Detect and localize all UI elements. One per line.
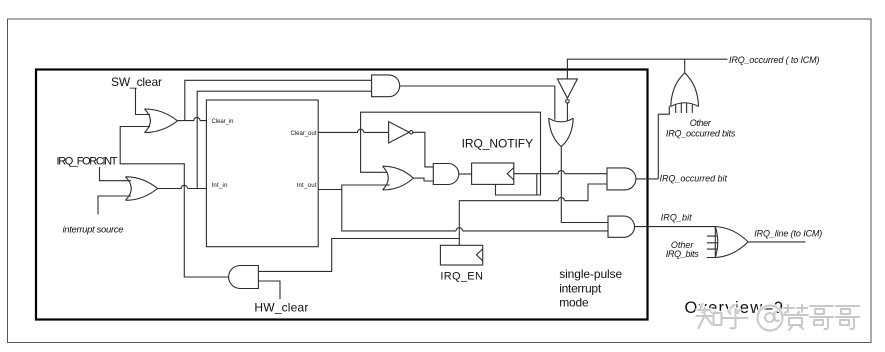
svg-text:Int_out: Int_out: [297, 183, 317, 189]
wire IRQ_line output: [748, 241, 805, 243]
watermark gray text 知乎@赞哥哥: [697, 304, 860, 331]
wire OR2 output to Int_in with hop over HW net: [158, 185, 207, 188]
synchronizer box: [206, 100, 318, 247]
wire top ICM rail: [567, 59, 727, 79]
wire IRQ_EN net (FF up, right to AND1 input 2, hop over downOR net): [459, 184, 607, 245]
svg-text:IRQ_occurred bits: IRQ_occurred bits: [666, 129, 736, 139]
wire IRQ_EN branch to HW AND input 1: [258, 239, 459, 272]
svg-text:Clear_out: Clear_out: [291, 131, 317, 137]
svg-text:Int_in: Int_in: [212, 183, 228, 189]
svg-text:interrupt source: interrupt source: [63, 225, 124, 236]
and-gate U_hw (mirrored, output left): [229, 266, 259, 289]
svg-text:IRQ_NOTIFY: IRQ_NOTIFY: [462, 137, 533, 151]
wire Int_out to notify OR input 2 and AND2 input 2 (hop over IRQ_EN net): [318, 185, 608, 231]
svg-text:IRQ_bit: IRQ_bit: [661, 212, 692, 222]
svg-text:SW_clear: SW_clear: [111, 75, 162, 89]
wire FF output to AND1 input 1 with hop over downOR net: [514, 170, 607, 173]
or-gate OR2 (interrupt combine): [126, 177, 158, 201]
and-gate U_and2 (IRQ_bit): [608, 216, 635, 237]
wire interrupt source to OR2 input 2: [98, 196, 131, 214]
flip-flop IRQ_EN: [440, 245, 482, 265]
or-gate OR1 (clear combine): [145, 109, 178, 133]
wire down OR output to AND2 input 1: [561, 147, 608, 223]
wire OR1 output to Clear_in with hop over HW net: [178, 117, 207, 120]
svg-text:IRQ_occurred bit: IRQ_occurred bit: [660, 174, 728, 184]
flip-flop IRQ_NOTIFY FF: [472, 163, 514, 184]
wire up OR output to ICM rail: [684, 59, 686, 73]
svg-text:HW_clear: HW_clear: [254, 301, 308, 315]
wire feedback riser to FF output wire: [536, 174, 538, 195]
bubble of down inverter: [566, 100, 570, 104]
wire down inverter to down OR input 2: [566, 103, 568, 120]
wire notify AND output to FF: [459, 173, 472, 175]
svg-text:IRQ_occurred ( to ICM): IRQ_occurred ( to ICM): [729, 55, 820, 65]
input stubs of line OR: [707, 236, 718, 257]
svg-text:IRQ_line (to ICM): IRQ_line (to ICM): [754, 228, 822, 238]
clock chevron of notify FF: [507, 168, 514, 180]
wire top AND output to down OR input 1: [400, 86, 555, 120]
or-gate U_or_up (IRQ_occurred combine): [671, 73, 699, 107]
wire AND1 output across module edge: [636, 178, 658, 180]
or-gate U_or_down (clear source select): [549, 118, 574, 146]
svg-text:interrupt: interrupt: [559, 281, 602, 295]
svg-text:IRQ_bits: IRQ_bits: [666, 249, 700, 259]
svg-text:IRQ_FORCINT: IRQ_FORCINT: [57, 156, 118, 168]
svg-text:IRQ_EN: IRQ_EN: [440, 271, 483, 283]
inverter U_notify_inv: [389, 122, 410, 143]
wire notify inverter output loop to notify AND input 1: [413, 132, 433, 167]
wire IRQ_FORCINT down-branch to OR2 input 1: [100, 167, 132, 181]
and-gate U_and1 (IRQ_occurred bit): [607, 168, 636, 190]
wire notify feedback loop (FF output around to OR input 1): [361, 112, 541, 195]
clock chevron of IRQ_EN FF: [477, 249, 483, 261]
wire HW-clear net: OR1 input 2 down through corner to HW AND output: [120, 127, 228, 278]
wire occurred riser to up OR left input: [658, 106, 669, 179]
or-gate U_notify_or: [383, 166, 414, 190]
wire AND2 output to line OR top input: [635, 226, 716, 228]
or-gate U_or_line (IRQ_line combine): [715, 227, 748, 258]
wire notify OR output to notify AND input 2: [413, 178, 433, 181]
wire Clear_out to notify inverter with hop over feedback: [318, 129, 388, 132]
wire Clear_in tap vertical to top AND input 1: [185, 80, 372, 120]
svg-text:mode: mode: [559, 296, 589, 310]
inverter U_inv_down: [557, 79, 577, 98]
svg-text:Clear_in: Clear_in: [212, 119, 234, 125]
inner module box: [36, 70, 648, 320]
svg-text:single-pulse: single-pulse: [559, 267, 622, 281]
and-gate U_notify_and: [433, 164, 458, 185]
svg-text:Other: Other: [690, 118, 712, 128]
wire Int_in tap vertical to top AND input 2: [197, 91, 371, 188]
watermark halo: [697, 304, 860, 331]
wire SW_clear to OR1 input 1: [136, 89, 151, 115]
bubble of notify inverter: [410, 131, 413, 134]
and-gate top (clear qualification): [372, 75, 400, 97]
wire HW_clear stub: [258, 281, 280, 299]
input stubs of up OR: [676, 103, 693, 113]
